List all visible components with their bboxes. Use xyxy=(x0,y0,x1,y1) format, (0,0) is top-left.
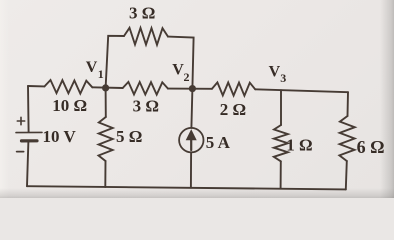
wire: V1 down to 5-ohm xyxy=(105,88,107,117)
svg-text:1: 1 xyxy=(98,67,104,81)
svg-text:3 Ω: 3 Ω xyxy=(133,96,159,115)
wire: V3 down to 1-ohm xyxy=(280,90,282,125)
wire: top branch down to V2 xyxy=(168,37,194,89)
resistor R 2ohm (horizontal zigzag V2-V3) xyxy=(212,82,255,95)
svg-text:2 Ω: 2 Ω xyxy=(220,100,246,119)
wire: top-left corner down to battery xyxy=(27,86,30,132)
wire: 5ohm to bottom rail xyxy=(104,161,106,187)
current source arrow (up) xyxy=(190,139,192,150)
battery minus sign xyxy=(17,151,24,153)
wire: 1ohm to bottom rail xyxy=(280,161,282,188)
svg-text:5 A: 5 A xyxy=(206,133,231,152)
svg-text:V: V xyxy=(269,63,281,80)
current source I 5A (circle) xyxy=(179,128,203,152)
node V2 (junction dot) xyxy=(189,85,196,92)
svg-text:2: 2 xyxy=(184,70,190,84)
battery plus sign xyxy=(17,117,24,124)
resistor R 10ohm (horizontal zigzag) xyxy=(45,80,93,94)
svg-text:V: V xyxy=(172,61,184,78)
svg-text:10 V: 10 V xyxy=(43,127,77,146)
resistor R 1ohm (vertical zigzag) xyxy=(274,125,288,161)
svg-text:3: 3 xyxy=(280,71,286,85)
wire: current source to bottom rail xyxy=(190,152,192,187)
wire: 3ohm to node V2 and into 2-ohm xyxy=(168,88,212,90)
wire: battery to bottom-left corner xyxy=(27,141,28,186)
battery V1 10V positive plate (long) xyxy=(16,131,42,133)
wire: V1 up to top branch xyxy=(106,36,124,88)
wire: top-right corner down to 6-ohm xyxy=(347,92,350,116)
svg-text:6 Ω: 6 Ω xyxy=(357,137,385,157)
wire: 6ohm to bottom-right corner xyxy=(346,161,347,189)
battery V1 10V negative plate (short thick) xyxy=(22,139,38,142)
wire: V2 down to current source xyxy=(191,89,192,128)
wire: 2ohm through node V3 to top-right corner xyxy=(255,89,348,92)
resistor R 5ohm (vertical zigzag) xyxy=(99,117,113,161)
svg-text:1 Ω: 1 Ω xyxy=(286,135,312,154)
wire: bottom rail xyxy=(27,186,346,189)
svg-text:10 Ω: 10 Ω xyxy=(52,96,87,115)
resistor R 3ohm top (horizontal zigzag) xyxy=(124,28,168,45)
node V1 (junction dot) xyxy=(102,84,109,91)
wire: left rail from top-left corner into 10-ohm xyxy=(28,85,45,87)
svg-text:V: V xyxy=(86,59,98,76)
resistor R 3ohm middle (horizontal zigzag V1-V2) xyxy=(123,82,168,95)
svg-text:5 Ω: 5 Ω xyxy=(116,127,142,146)
wire: 10ohm to node V1 xyxy=(92,86,122,89)
resistor R 6ohm (vertical zigzag) xyxy=(339,116,354,161)
svg-text:3 Ω: 3 Ω xyxy=(129,4,155,23)
